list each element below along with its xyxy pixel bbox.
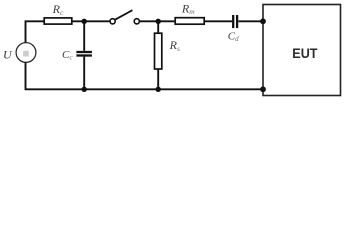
wire Cc bottom [83, 57, 85, 90]
node junction top of Rs [156, 19, 161, 24]
wire U bottom lead and bottom rail [26, 62, 264, 89]
wire Cd to EUT [238, 20, 263, 22]
wire Rc to switch [73, 20, 110, 22]
wire Rs bottom [157, 69, 159, 89]
svg-text:EUT: EUT [292, 45, 318, 61]
node junction bottom of Cc [82, 87, 87, 92]
node junction EUT bottom terminal [260, 86, 266, 92]
node junction top of Cc [82, 19, 87, 24]
node junction EUT top terminal [260, 18, 266, 24]
switch S [110, 10, 139, 24]
node junction bottom of Rs [156, 87, 161, 92]
wire switch to Rm [140, 20, 175, 22]
resistor Rc [44, 18, 72, 24]
capacitor Cd [233, 15, 237, 28]
EUT box [263, 5, 341, 96]
resistor Rs [155, 33, 162, 69]
wire Rs top [157, 21, 159, 33]
svg-text:U: U [3, 47, 13, 61]
voltage source U [16, 43, 36, 63]
wire Rm to Cd [205, 20, 232, 22]
wire Cc top [83, 21, 85, 51]
wire U top lead to Rc [26, 21, 44, 43]
capacitor Cc [76, 52, 92, 56]
resistor Rm [175, 18, 204, 25]
